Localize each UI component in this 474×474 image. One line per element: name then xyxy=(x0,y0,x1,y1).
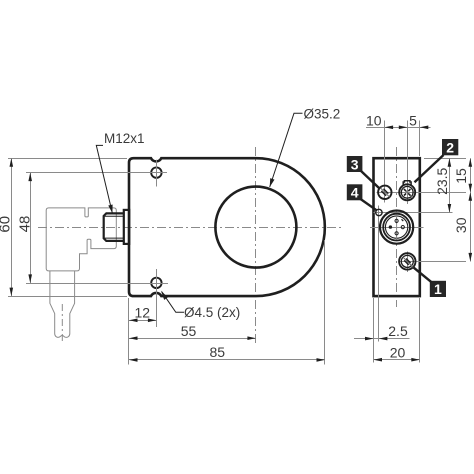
crosshair vertical top hole xyxy=(156,160,158,187)
extension line top hole (48) xyxy=(26,172,167,174)
extension line bottom hole (48) xyxy=(26,283,168,285)
extension vertical side right bottom xyxy=(419,298,421,363)
screw 1 output function screw xyxy=(399,253,415,269)
svg-text:48: 48 xyxy=(16,216,33,233)
dimension 10 and 5 top of side view xyxy=(366,127,431,129)
centerline horizontal main axis xyxy=(38,227,342,229)
mounting hole bottom xyxy=(151,278,161,288)
svg-text:4: 4 xyxy=(351,185,359,201)
centerline vertical cable boot xyxy=(61,304,63,341)
extension vertical screw 2 xyxy=(407,121,409,205)
svg-text:85: 85 xyxy=(210,344,226,360)
crosshair horizontal screws row xyxy=(377,192,467,194)
label box 1 xyxy=(413,267,446,297)
svg-text:Ø4.5 (2x): Ø4.5 (2x) xyxy=(184,305,240,320)
svg-text:Ø35.2: Ø35.2 xyxy=(304,106,341,121)
dimension 48 xyxy=(30,173,32,284)
centerline vertical side view xyxy=(396,147,398,307)
dimension 2.5 xyxy=(354,338,410,340)
crosshair vertical screw 1 xyxy=(407,252,409,273)
screw 2 potentiometer with tab xyxy=(399,181,415,201)
dimension 60 xyxy=(11,158,13,296)
label box 4 xyxy=(347,184,377,210)
phantom mating connector outline xyxy=(46,208,116,271)
dimension 15 xyxy=(470,158,472,192)
screw 3 sensitivity potentiometer xyxy=(378,186,391,199)
svg-text:1: 1 xyxy=(434,281,442,297)
extension line body bottom (60) xyxy=(8,296,127,298)
crosshair horizontal LED xyxy=(374,212,453,214)
extension vertical screw 3 xyxy=(384,121,386,203)
connector collar xyxy=(124,210,129,244)
extension line body top (60) xyxy=(8,158,127,160)
svg-text:60: 60 xyxy=(0,216,13,233)
dimension 85 xyxy=(129,359,325,361)
svg-text:2.5: 2.5 xyxy=(388,323,408,339)
dimension 55 xyxy=(129,338,256,340)
dimension 30 xyxy=(470,192,472,261)
svg-text:2: 2 xyxy=(446,140,454,156)
svg-text:5: 5 xyxy=(409,113,417,129)
svg-text:15: 15 xyxy=(453,168,469,184)
mounting hole top xyxy=(151,167,161,177)
dimension 23.5 xyxy=(449,158,451,212)
svg-text:30: 30 xyxy=(453,217,469,233)
side view housing rectangle xyxy=(374,158,420,296)
dimension 20 xyxy=(374,359,420,361)
thread root lines xyxy=(105,215,124,217)
dimension 12 xyxy=(129,320,157,322)
M12 connector socket face xyxy=(380,211,413,244)
M12 thread barrel xyxy=(104,213,124,241)
crosshair horizontal M12 socket xyxy=(370,227,424,229)
extension horizontal side top right (15/23.5) xyxy=(424,158,466,160)
extension line body left bottom xyxy=(128,298,130,365)
svg-text:10: 10 xyxy=(366,113,382,129)
svg-text:20: 20 xyxy=(390,345,406,361)
svg-text:M12x1: M12x1 xyxy=(104,131,145,146)
svg-text:3: 3 xyxy=(351,156,359,172)
svg-text:12: 12 xyxy=(135,305,151,321)
svg-text:23.5: 23.5 xyxy=(434,167,450,194)
extension vertical side right edge top xyxy=(419,121,421,157)
phantom cable boot xyxy=(50,271,75,337)
LED 4 xyxy=(376,209,382,215)
extension line body right bottom xyxy=(324,240,326,365)
extension vertical LED down xyxy=(378,206,380,342)
centerline vertical through big circle xyxy=(255,147,257,343)
label box 3 xyxy=(347,156,380,189)
big through-hole circle D35.2 xyxy=(215,187,296,268)
extension vertical side left bottom xyxy=(373,298,375,363)
sensor body outline (front view) xyxy=(129,158,325,296)
label box 2 xyxy=(415,139,459,182)
svg-text:55: 55 xyxy=(181,323,197,339)
crosshair horizontal screw 1 xyxy=(399,261,467,263)
crosshair vertical bottom hole / extension for 12 xyxy=(156,269,158,327)
